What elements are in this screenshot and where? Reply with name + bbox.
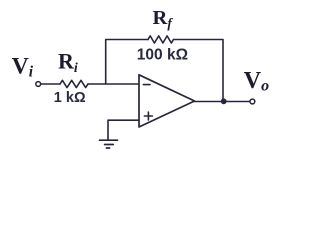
wire feedback left vertical: [106, 40, 148, 85]
node output junction dot: [221, 98, 227, 104]
input terminal circle Vi: [36, 82, 41, 87]
wire op-amp output: [195, 101, 251, 103]
op-amp U1: [139, 75, 195, 127]
resistor Ri: [60, 80, 88, 87]
svg-text:Rf: Rf: [153, 7, 174, 30]
svg-text:100 kΩ: 100 kΩ: [137, 47, 188, 64]
svg-text:1 kΩ: 1 kΩ: [54, 90, 86, 106]
resistor Rf: [148, 36, 174, 43]
wire Ri to inverting input: [88, 83, 139, 85]
svg-text:Vo: Vo: [244, 68, 269, 94]
wire feedback top and right vertical: [174, 40, 224, 102]
non-inverting input plus marker: [144, 112, 152, 120]
output terminal circle Vo: [250, 99, 255, 104]
wire input to Ri: [41, 83, 60, 85]
ground: [100, 140, 118, 148]
svg-text:Vi: Vi: [12, 54, 34, 81]
wire non-inverting input to ground: [108, 120, 139, 140]
svg-text:Ri: Ri: [58, 49, 78, 76]
inverting input minus marker: [143, 84, 150, 86]
